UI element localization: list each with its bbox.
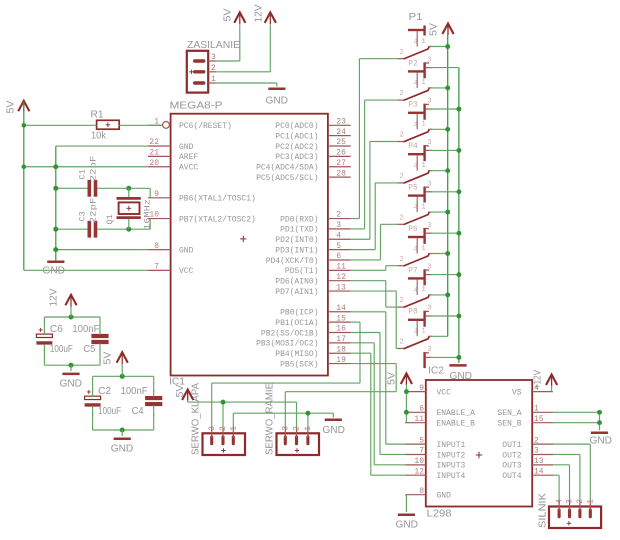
wire P8 pin1 to 5V rail	[431, 335, 448, 337]
svg-text:4: 4	[414, 39, 418, 47]
supply 12V label (C6 block)	[49, 288, 60, 306]
IC2 pin 7 INPUT2 (left)	[405, 447, 465, 461]
svg-text:1: 1	[422, 121, 426, 129]
svg-text:3: 3	[427, 98, 431, 106]
wire R1 to IC1 pin1	[119, 124, 162, 126]
svg-text:1: 1	[422, 328, 426, 336]
C2 name label	[98, 386, 111, 397]
junction P3 GND rail	[456, 148, 461, 153]
wire filter block top (C6/C5)	[44, 317, 100, 333]
svg-text:4: 4	[414, 246, 418, 254]
SILNIK pin numbers	[555, 499, 595, 504]
IC1 pin 4 PD2(INT0) (right)	[275, 231, 350, 245]
svg-text:16: 16	[336, 325, 346, 334]
ground GND (servo)	[325, 418, 342, 421]
svg-text:25: 25	[336, 138, 346, 147]
capacitor C3	[89, 221, 95, 238]
svg-text:22pF: 22pF	[89, 156, 99, 182]
junction top C6	[69, 315, 74, 320]
svg-text:13: 13	[336, 283, 346, 292]
wire P8 pin3 to GND rail	[430, 356, 459, 358]
junction 5V/AVCC	[22, 164, 27, 169]
ground GND (switch rail) label	[450, 371, 473, 382]
SERWO_KLAPA pin numbers	[208, 426, 239, 431]
supply +5V arrow (switch rail)	[442, 24, 453, 36]
IC2 name label	[428, 366, 444, 377]
svg-text:19: 19	[336, 356, 346, 365]
capacitor C6 (electrolytic)	[36, 328, 52, 351]
svg-text:1: 1	[422, 38, 426, 46]
ZASILANIE pin 3	[208, 53, 216, 62]
IC2 pin 2 OUT1 (right)	[502, 436, 553, 450]
IC2 pin 3 OUT2 (right)	[502, 447, 553, 461]
switch P7 name label	[408, 266, 418, 275]
svg-text:R1: R1	[91, 110, 104, 121]
C4 name label	[132, 406, 144, 417]
wire PB0 pin14 to IC2 INPUT1	[351, 312, 405, 444]
switch P6 pin number labels	[400, 245, 432, 271]
svg-text:P3: P3	[408, 101, 418, 110]
svg-text:PD0(RXD): PD0(RXD)	[280, 215, 318, 224]
svg-text:P5: P5	[408, 184, 418, 193]
IC1 pin 21 AREF (left)	[148, 149, 199, 163]
svg-text:100nF: 100nF	[72, 324, 99, 335]
IC2 pin 12 INPUT4 (left)	[405, 467, 465, 481]
wire XTAL bottom node	[56, 219, 150, 230]
capacitor C2 (electrolytic)	[85, 390, 101, 416]
wire VCC pin7 to 5V rail	[24, 269, 148, 271]
svg-text:9: 9	[419, 384, 424, 393]
svg-text:28: 28	[336, 169, 346, 178]
svg-text:3: 3	[534, 447, 539, 456]
svg-text:SEN_A: SEN_A	[497, 409, 521, 418]
svg-text:4: 4	[414, 204, 418, 212]
svg-text:14: 14	[534, 467, 544, 476]
switch P3 tact switch symbol	[398, 113, 433, 161]
IC2 pin 10 INPUT3 (left)	[405, 457, 465, 471]
svg-text:SEN_B: SEN_B	[497, 419, 521, 428]
supply 12V label (ZASILANIE)	[254, 4, 265, 22]
wire P7 pin1 to 5V rail	[431, 294, 448, 296]
junction bottom C2	[120, 428, 125, 433]
junction SEN_B	[597, 420, 602, 425]
wire servo 5V distribution	[188, 400, 297, 428]
SERWO_RAMIE name label	[265, 383, 276, 455]
wire filter block bottom (C2/C4)	[93, 414, 154, 430]
wire ZASILANIE pin3 to 5V	[216, 25, 240, 61]
svg-text:3: 3	[427, 139, 431, 147]
supply +5V arrow (ZASILANIE)	[234, 12, 245, 24]
svg-text:P6: P6	[408, 225, 418, 234]
svg-text:PC4(ADC4/SDA): PC4(ADC4/SDA)	[256, 164, 318, 173]
svg-text:7: 7	[154, 263, 159, 272]
svg-text:OUT3: OUT3	[502, 462, 521, 471]
IC1 pin 14 PB0(ICP) (right)	[280, 304, 351, 318]
wire P7 pin3 to GND rail	[430, 315, 459, 317]
connector SERWO_KLAPA	[203, 427, 246, 455]
switch P1 tact switch symbol	[398, 26, 433, 79]
IC1 name label	[169, 377, 185, 388]
supply +12V arrow (IC2 VS)	[546, 375, 557, 387]
wire XTAL top node	[56, 188, 150, 198]
wire PB2 pin16 to IC2 INPUT2	[351, 333, 405, 455]
svg-text:PC1(ADC1): PC1(ADC1)	[275, 132, 318, 141]
svg-text:PC3(ADC3): PC3(ADC3)	[275, 153, 318, 162]
svg-text:6: 6	[419, 405, 424, 414]
junction P7 GND rail	[456, 314, 461, 319]
svg-text:2: 2	[293, 426, 302, 431]
supply +5V arrow (C2 block)	[117, 352, 128, 364]
junction P2 5V rail	[445, 85, 450, 90]
svg-text:22pF: 22pF	[89, 198, 99, 224]
svg-text:GND: GND	[179, 143, 194, 152]
svg-text:5: 5	[419, 436, 424, 445]
IC2 pin 8 GND (left)	[405, 487, 451, 501]
svg-text:2: 2	[400, 132, 404, 140]
svg-text:PC5(ADC5/SCL): PC5(ADC5/SCL)	[256, 174, 318, 183]
svg-text:PD1(TXD): PD1(TXD)	[280, 226, 318, 235]
svg-text:8: 8	[154, 242, 159, 251]
svg-text:4: 4	[414, 80, 418, 88]
svg-text:1: 1	[422, 286, 426, 294]
svg-text:VS: VS	[512, 388, 522, 397]
svg-text:GND: GND	[322, 425, 345, 436]
svg-text:AREF: AREF	[179, 153, 198, 162]
wire ZASILANIE pin1 to GND	[216, 83, 277, 87]
IC1 pin 10 PB7(XTAL2/TOSC2) (left)	[148, 211, 256, 225]
IC2 pin 1 SEN_A (right)	[497, 405, 553, 419]
svg-text:OUT1: OUT1	[502, 441, 521, 450]
svg-text:4: 4	[414, 328, 418, 336]
IC1 value label MEGA8-P	[170, 100, 223, 111]
svg-text:1: 1	[422, 162, 426, 170]
SILNIK name label	[538, 493, 549, 528]
svg-text:C3: C3	[78, 211, 88, 221]
IC1 pin 1 PC6(/RESET) (left)	[148, 118, 232, 132]
ground GND (C2 block)	[114, 437, 131, 440]
supply +5V arrow (left)	[18, 101, 29, 113]
svg-text:14: 14	[336, 304, 346, 313]
svg-text:Q1: Q1	[105, 214, 115, 224]
IC1 pin 23 PC0(ADC0) (right)	[275, 118, 350, 132]
junction P6 5V rail	[445, 251, 450, 256]
C6 name label	[50, 324, 63, 335]
C4 value label	[121, 386, 148, 397]
IC1 pin 11 PD5(T1) (right)	[285, 263, 351, 277]
wire 5V rail vertical (left)	[23, 102, 25, 270]
junction P7 5V rail	[445, 292, 450, 297]
svg-text:SILNIK: SILNIK	[538, 493, 549, 528]
SERWO_RAMIE pin numbers	[282, 426, 314, 431]
svg-text:VCC: VCC	[437, 388, 452, 397]
svg-text:PD7(AIN1): PD7(AIN1)	[275, 288, 318, 297]
IC1 pin 24 PC1(ADC1) (right)	[275, 128, 350, 142]
svg-text:1: 1	[230, 426, 239, 431]
C5 name label	[83, 344, 95, 355]
svg-text:PB5(SCK): PB5(SCK)	[280, 360, 318, 369]
svg-text:100uF: 100uF	[98, 406, 121, 417]
svg-text:1: 1	[587, 499, 596, 504]
svg-text:2: 2	[400, 49, 404, 57]
wire P1 pin1 to 5V rail	[431, 46, 448, 48]
svg-text:C2: C2	[98, 386, 111, 397]
switch P7 pin number labels	[400, 286, 432, 313]
svg-text:C1: C1	[78, 169, 88, 179]
svg-text:12V: 12V	[49, 288, 60, 306]
wire PB3 pin17 to IC2 INPUT3	[351, 343, 405, 465]
svg-text:4: 4	[414, 163, 418, 171]
IC1 pin 12 PD6(AIN0) (right)	[275, 273, 350, 287]
svg-text:10k: 10k	[91, 131, 107, 142]
wire PB4 pin18 to IC2 INPUT4	[351, 353, 405, 475]
switch P6 name label	[408, 225, 418, 234]
svg-text:5V: 5V	[387, 372, 398, 385]
IC1 pin 15 PB1(OC1A) (right)	[275, 314, 350, 328]
svg-text:PC0(ADC0): PC0(ADC0)	[275, 122, 318, 131]
switch P4 tact switch symbol	[398, 154, 433, 202]
ZASILANIE label	[187, 40, 240, 51]
svg-text:11: 11	[336, 263, 346, 272]
svg-text:15: 15	[336, 314, 346, 323]
svg-text:P1: P1	[409, 12, 423, 23]
IC2 pin 6 ENABLE_A (left)	[405, 405, 475, 419]
wire GND switch rail vertical	[458, 68, 460, 363]
switch P4 name label	[408, 142, 418, 151]
junction crystal top	[126, 186, 131, 191]
svg-text:PB7(XTAL2/TOSC2): PB7(XTAL2/TOSC2)	[179, 215, 256, 224]
junction crystal bottom	[126, 227, 131, 232]
svg-text:PC2(ADC2): PC2(ADC2)	[275, 143, 318, 152]
ground GND (servo) label	[322, 425, 345, 436]
supply 5V label (C2 block)	[103, 351, 114, 364]
junction P5 5V rail	[445, 210, 450, 215]
switch P2 pin number labels	[400, 79, 432, 106]
IC1 pin 18 PB4(MISO) (right)	[275, 345, 350, 359]
C1 value 22pF	[89, 156, 99, 182]
IC1 pin 7 VCC (left)	[148, 263, 194, 277]
wire ZASILANIE pin2 to 12V	[216, 25, 270, 72]
svg-text:2: 2	[400, 90, 404, 98]
wire P4 pin3 to GND rail	[430, 191, 459, 193]
svg-text:2: 2	[219, 426, 228, 431]
junction P8 GND rail	[456, 355, 461, 360]
connector SILNIK (motor)	[549, 501, 601, 529]
junction servo 5V / KLAPA pin2	[221, 400, 226, 405]
junction P1 5V rail	[445, 44, 450, 49]
wire P6 pin3 to GND rail	[430, 274, 459, 276]
resistor R1	[97, 120, 120, 129]
junction P4 GND rail	[456, 189, 461, 194]
wire P2 pin1 to 5V rail	[431, 87, 448, 89]
svg-text:17: 17	[336, 335, 346, 344]
wire 5V arrow stem (C2 block)	[121, 364, 123, 376]
wire servo GND net	[233, 413, 333, 427]
junction P6 GND rail	[456, 272, 461, 277]
C3 value 22pF	[89, 198, 99, 224]
switch P6 tact switch symbol	[398, 237, 433, 285]
svg-text:16MHz: 16MHz	[143, 199, 153, 230]
svg-text:SERWO_RAMIE: SERWO_RAMIE	[265, 383, 276, 455]
Q1 name label	[105, 214, 115, 224]
svg-text:2: 2	[336, 211, 341, 220]
supply 5V label (ZASILANIE)	[223, 8, 234, 21]
supply 5V label (left)	[6, 100, 17, 113]
wire P3 pin1 to 5V rail	[431, 128, 448, 130]
wire P4 pin1 to 5V rail	[431, 170, 448, 172]
svg-text:PB1(OC1A): PB1(OC1A)	[275, 319, 318, 328]
switch P1 pin number labels	[400, 38, 432, 65]
IC2 pin 11 ENABLE_B (left)	[405, 415, 475, 429]
svg-text:27: 27	[336, 159, 346, 168]
svg-text:AVCC: AVCC	[179, 164, 198, 173]
svg-text:PD4(XCK/T0): PD4(XCK/T0)	[266, 257, 319, 266]
C6 value label	[50, 344, 73, 355]
wire P8 pin2 to IC1	[351, 291, 398, 348]
svg-text:1: 1	[422, 245, 426, 253]
svg-text:2: 2	[400, 173, 404, 181]
wire GND rail vertical (left)	[55, 146, 57, 260]
IC1 pin 26 PC3(ADC3) (right)	[275, 149, 350, 163]
wire IC2 OUT2 to SILNIK	[553, 454, 580, 501]
svg-text:GND: GND	[266, 96, 289, 107]
ZASILANIE pin 1	[208, 75, 216, 84]
wire P5 pin2 to IC1	[351, 224, 398, 260]
capacitor C5 (ceramic)	[91, 331, 108, 351]
svg-text:ENABLE_A: ENABLE_A	[437, 409, 476, 418]
wire PB5 pin19 to SERWO_RAMIE signal	[285, 364, 396, 428]
svg-text:5V: 5V	[175, 384, 186, 397]
svg-text:15: 15	[534, 415, 544, 424]
svg-text:GND: GND	[590, 436, 613, 447]
supply +12V arrow (ZASILANIE)	[265, 12, 276, 24]
wire IC2 SEN_B to GND	[553, 412, 600, 430]
wire PB1 pin15 to SERWO_KLAPA signal	[212, 322, 360, 427]
C1 name label	[78, 169, 88, 179]
svg-text:23: 23	[336, 118, 346, 127]
svg-text:12: 12	[336, 273, 346, 282]
wire IC1 pin22 GND to rail	[56, 145, 148, 147]
IC U1: microcontroller IC1 MEGA8-P body	[171, 114, 328, 376]
svg-text:24: 24	[336, 128, 346, 137]
switch P5 name label	[408, 184, 418, 193]
svg-text:1: 1	[304, 426, 313, 431]
ground GND (ZASILANIE) label	[266, 96, 289, 107]
svg-text:1: 1	[211, 75, 216, 84]
switch P2 name label	[408, 59, 418, 68]
svg-text:1: 1	[534, 405, 539, 414]
svg-text:PD6(AIN0): PD6(AIN0)	[275, 278, 318, 287]
switch P3 name label	[408, 101, 418, 110]
svg-text:P8: P8	[408, 308, 418, 317]
IC2 pin 15 SEN_B (right)	[497, 415, 553, 429]
supply +5V arrow (IC2)	[401, 374, 412, 386]
svg-text:P4: P4	[408, 142, 418, 151]
IC2 value L298	[427, 509, 452, 520]
ground GND (switch rail)	[449, 364, 466, 367]
svg-text:INPUT2: INPUT2	[437, 451, 466, 460]
svg-text:ENABLE_B: ENABLE_B	[437, 419, 476, 428]
svg-text:3: 3	[427, 181, 431, 189]
IC1 pin 6 PD4(XCK/T0) (right)	[266, 252, 351, 266]
wire +5V switch rail vertical	[447, 35, 449, 337]
svg-text:PB2(SS/OC1B): PB2(SS/OC1B)	[261, 329, 319, 338]
svg-text:INPUT1: INPUT1	[437, 441, 466, 450]
wire IC2 VS to +12V	[552, 386, 553, 392]
wire C2 gnd stem	[121, 430, 123, 436]
wire IC2 OUT1 to SILNIK	[553, 444, 590, 501]
ground GND (IC2 pin8)	[398, 513, 415, 516]
connector ZASILANIE (power header)	[187, 51, 208, 93]
svg-text:4: 4	[414, 287, 418, 295]
IC1 pin 3 PD1(TXD) (right)	[280, 221, 351, 235]
svg-text:100nF: 100nF	[121, 386, 148, 397]
svg-text:3: 3	[208, 426, 217, 431]
switch P8 name label	[408, 308, 418, 317]
connector SERWO_RAMIE	[277, 427, 320, 455]
svg-text:11: 11	[414, 415, 424, 424]
svg-text:4: 4	[555, 499, 564, 504]
svg-text:10: 10	[414, 457, 424, 466]
svg-text:5V: 5V	[223, 8, 234, 21]
svg-text:7: 7	[419, 447, 424, 456]
svg-text:PD3(INT1): PD3(INT1)	[275, 246, 318, 255]
IC2 pin 13 OUT3 (right)	[502, 457, 553, 471]
ground GND (SEN)	[591, 431, 608, 434]
svg-text:12: 12	[414, 467, 424, 476]
svg-text:1: 1	[422, 79, 426, 87]
junction GND rail pin8	[53, 247, 58, 252]
ground GND (IC2 pin8) label	[396, 520, 419, 531]
svg-text:INPUT3: INPUT3	[437, 462, 466, 471]
svg-text:1: 1	[422, 203, 426, 211]
junction IC2 ENABLE_A	[404, 410, 409, 415]
wire filter block top (C2/C4)	[93, 376, 154, 392]
junction servo GND / RAMIE pin1	[305, 411, 310, 416]
junction top C2	[120, 374, 125, 379]
svg-text:PB0(ICP): PB0(ICP)	[280, 309, 318, 318]
IC1 pin 19 PB5(SCK) (right)	[280, 356, 351, 370]
svg-text:GND: GND	[437, 491, 452, 500]
wire IC2 5V to VCC/ENABLE_A/ENABLE_B	[405, 385, 407, 423]
svg-text:PC6(/RESET): PC6(/RESET)	[179, 122, 232, 131]
svg-text:5V: 5V	[6, 100, 17, 113]
wire P7 pin2 to IC1	[351, 281, 398, 307]
junction bottom C6	[69, 363, 74, 368]
switch P4 pin number labels	[400, 162, 432, 189]
svg-text:OUT4: OUT4	[502, 472, 521, 481]
IC1 pin 27 PC4(ADC4/SDA) (right)	[256, 159, 351, 173]
wire AVCC to 5V rail	[24, 166, 148, 168]
supply +12V arrow (C6 block)	[65, 295, 76, 307]
svg-text:3: 3	[427, 346, 431, 354]
wire filter block bottom (C6/C5)	[44, 349, 100, 365]
svg-text:5V: 5V	[103, 351, 114, 364]
wire IC2 OUT3 to SILNIK	[553, 465, 570, 502]
switch P5 tact switch symbol	[398, 196, 433, 244]
wire IC2 GND pin8 to ground	[405, 495, 406, 513]
wire C6 gnd stem	[70, 365, 72, 371]
supply +5V arrow (servo)	[182, 390, 193, 401]
svg-text:4: 4	[414, 121, 418, 129]
svg-text:2: 2	[400, 339, 404, 347]
svg-text:26: 26	[336, 149, 346, 158]
C2 value label	[98, 406, 121, 417]
ground GND (left rail) label	[43, 266, 66, 277]
wire IC2 SEN_A to GND	[553, 411, 600, 413]
svg-text:OUT2: OUT2	[502, 451, 521, 460]
svg-text:C6: C6	[50, 324, 63, 335]
svg-text:2: 2	[534, 436, 539, 445]
